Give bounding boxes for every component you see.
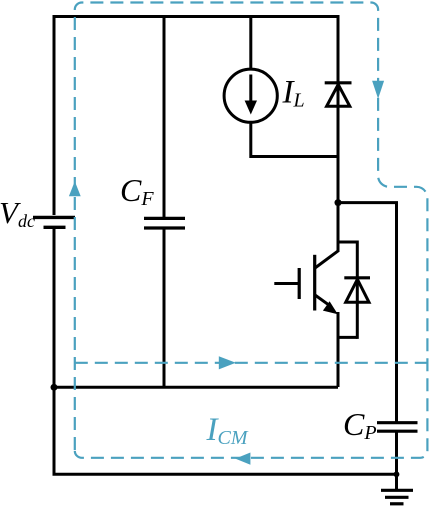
diode D1 bar bbox=[325, 81, 352, 84]
arrow CM down (inner right) bbox=[372, 81, 384, 99]
wire middle rail bbox=[54, 386, 338, 389]
arrow CM left (bottom) bbox=[235, 453, 250, 465]
battery Vdc long plate bbox=[33, 216, 75, 219]
capacitor CP plates bbox=[377, 423, 418, 432]
arrow CM right (middle) bbox=[219, 356, 236, 369]
wire current source top bbox=[249, 15, 252, 70]
transistor Q1 collector diagonal bbox=[315, 251, 338, 268]
wire top rail bbox=[54, 15, 338, 18]
diode D1 triangle bbox=[327, 85, 350, 107]
wire left vertical upper bbox=[53, 15, 56, 215]
wire CP bottom bbox=[395, 432, 398, 474]
dashed CM loop outer bbox=[75, 3, 428, 458]
diode D2 bar bbox=[344, 276, 370, 279]
node junction dot mid bbox=[335, 199, 342, 206]
wire IGBT emitter vertical bbox=[337, 312, 340, 387]
svg-text:CP: CP bbox=[343, 406, 377, 444]
wire current source bottom to diode branch bbox=[251, 122, 338, 156]
wire diode D2 bottom jog bbox=[338, 336, 357, 339]
node junction dot left bbox=[51, 384, 58, 391]
wire IGBT collector jog to diode branch bbox=[338, 241, 357, 244]
wire bottom rail bbox=[53, 473, 397, 476]
current source IL arrow bbox=[249, 75, 252, 102]
transistor Q1 emitter arrowhead bbox=[323, 301, 338, 314]
battery Vdc short plate bbox=[44, 226, 66, 229]
wire node to right branch bbox=[338, 203, 397, 423]
svg-text:Vdc: Vdc bbox=[0, 195, 35, 231]
node junction dot ground bbox=[394, 471, 400, 477]
svg-text:ICM: ICM bbox=[206, 412, 249, 449]
transistor Q1 emitter diagonal bbox=[315, 295, 330, 306]
wire diode D2 branch vertical bbox=[356, 241, 359, 339]
capacitor CF plates bbox=[144, 218, 185, 228]
capacitor CF bottom wire bbox=[163, 230, 166, 388]
wire top diode vertical bbox=[337, 15, 340, 252]
svg-text:CF: CF bbox=[120, 172, 154, 210]
diode D2 triangle bbox=[346, 279, 369, 302]
current source IL circle bbox=[224, 69, 277, 122]
wire left vertical lower bbox=[53, 228, 56, 474]
transistor Q1 channel bar bbox=[313, 255, 316, 311]
transistor Q1 gate bar bbox=[298, 268, 301, 299]
ground bbox=[395, 474, 398, 489]
arrow CM up (left) bbox=[69, 181, 81, 196]
capacitor CF top wire bbox=[163, 15, 166, 217]
transistor Q1 gate lead bbox=[274, 282, 299, 285]
svg-text:IL: IL bbox=[282, 75, 305, 112]
dashed CM middle branch bbox=[75, 362, 428, 364]
